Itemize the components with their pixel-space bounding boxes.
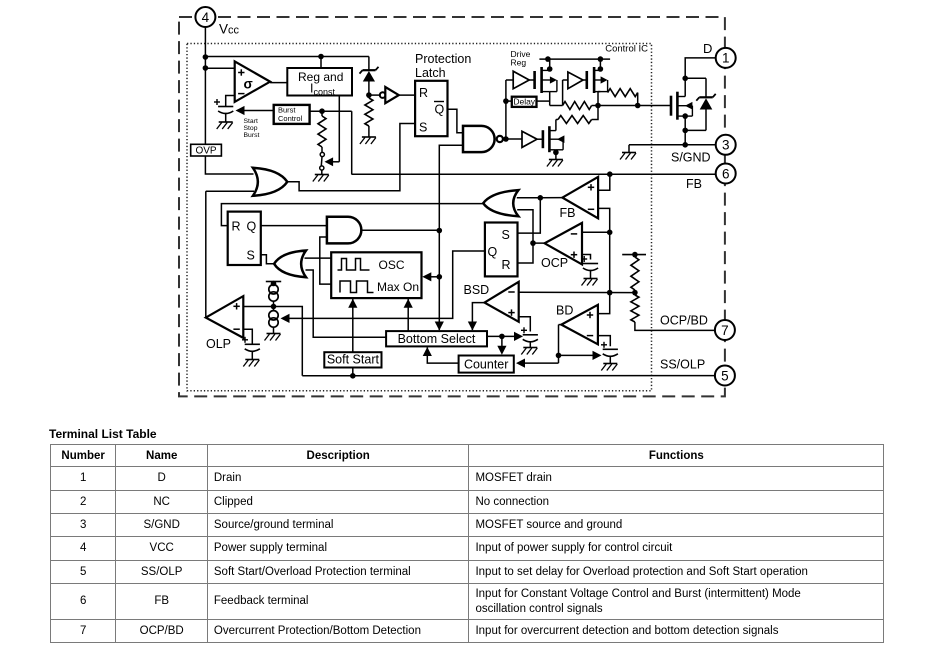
wire to buffer B1: [506, 79, 513, 81]
wire M4 drain to pin 1: [685, 58, 716, 97]
pin label FB: [686, 177, 702, 191]
label Drive Reg: [511, 49, 531, 68]
wire SoftStart to OSC: [348, 299, 357, 352]
node VCC junction 2: [203, 65, 209, 71]
resistor R6: [631, 257, 639, 290]
svg-text:Stop: Stop: [244, 125, 258, 132]
wire BD output: [559, 325, 562, 364]
ground M3: [547, 160, 563, 167]
IC package outline (dashed): [179, 17, 725, 396]
wire NAND output: [503, 138, 506, 140]
wire R5 to gate line: [592, 106, 598, 120]
wire CS node to SS/OLP line: [274, 307, 303, 376]
divider bias bar: [622, 254, 646, 256]
svg-text:5: 5: [721, 368, 729, 383]
pin 7 (OCP/BD): [715, 320, 735, 340]
block Counter: [459, 356, 514, 373]
comparator FB: [562, 177, 598, 218]
node rail M2: [598, 56, 604, 62]
node VCC junction 1: [203, 54, 209, 60]
resistor R1: [365, 95, 373, 137]
wire U6 Q to AND: [261, 225, 327, 227]
wire U9 node to U10 S: [518, 198, 541, 233]
wire S/GND to pin 3: [629, 144, 717, 146]
op-amp U1 (Reg comparator): [235, 61, 270, 102]
svg-text:FB: FB: [686, 177, 702, 191]
ground R1: [360, 137, 376, 144]
svg-text:3: 3: [722, 138, 730, 153]
wire Reg box to switch arrow: [325, 96, 340, 167]
node S/GND: [682, 142, 688, 148]
wire FB out to U9 input 1: [517, 197, 541, 199]
wire rail to Reg box: [320, 57, 322, 69]
pin label SS/OLP: [660, 358, 705, 372]
label OCP: [541, 256, 568, 270]
wire C3 ground stub: [529, 342, 531, 348]
resistor R5: [558, 116, 592, 124]
svg-text:cc: cc: [228, 25, 240, 37]
wire NAND input 2 vertical: [435, 145, 463, 330]
node rail-Reg junction: [318, 54, 324, 60]
svg-text:Q: Q: [435, 103, 445, 117]
switch SW1: [320, 152, 325, 170]
ground C2: [243, 360, 259, 367]
resistor R4: [608, 89, 638, 97]
wire U8 output to U6 S: [261, 255, 274, 264]
current source CS2: [269, 311, 278, 328]
OR gate U8: [274, 251, 306, 278]
svg-text:6: 6: [722, 166, 730, 181]
wire C1 to ground: [225, 114, 227, 123]
svg-text:BSD: BSD: [464, 283, 490, 297]
comparator OLP: [206, 296, 244, 338]
svg-text:Control: Control: [278, 114, 303, 123]
comparator BD: [561, 305, 598, 345]
pin 1 (D): [716, 48, 736, 68]
pin label OCP/BD: [660, 314, 708, 328]
node M4 drain: [682, 76, 688, 82]
flip-flop U6: [228, 212, 261, 265]
pin label D: [703, 41, 712, 56]
wire R4 to gate line: [637, 93, 639, 106]
node burst-resistor junction: [319, 108, 325, 114]
pin 4 (VCC): [195, 7, 215, 27]
pin label S/GND: [671, 151, 711, 165]
wire OCP out to U9 input 2: [517, 210, 533, 243]
flip-flop U3 (Protection Latch): [415, 81, 447, 136]
terminal list table: [50, 444, 884, 643]
wire U3 Q to NAND: [448, 109, 464, 133]
wire C5 ground stub: [609, 356, 611, 363]
wire U1 - input: [226, 96, 235, 107]
svg-text:S: S: [419, 121, 427, 135]
wire Delay output node: [537, 92, 550, 106]
block OSC: [331, 252, 421, 298]
wire OR2 output to U6 R: [221, 204, 483, 226]
svg-text:Start: Start: [244, 118, 258, 125]
wire M3 source down: [555, 150, 557, 160]
pin 6 (FB): [716, 164, 736, 184]
wire OSC to U8 input 1: [305, 257, 332, 259]
wire SS/OLP line to pin 5: [302, 375, 715, 377]
svg-text:Q: Q: [488, 245, 498, 259]
label Start Stop Burst: [244, 118, 260, 139]
svg-text:Reg and: Reg and: [298, 70, 343, 84]
current source CS1: [269, 285, 278, 302]
wire drive rail: [539, 58, 610, 60]
transistor M4 (power MOSFET): [671, 92, 692, 120]
resistor R2 (burst divider): [318, 111, 326, 147]
label OLP: [206, 337, 231, 351]
wire BottomSelect to BSD cap: [487, 332, 523, 341]
wire FB output: [540, 197, 562, 199]
block Bottom Select: [386, 331, 487, 346]
wire M1 drain to rail: [549, 59, 551, 70]
zener diode D1: [360, 57, 379, 96]
wire SoftStart stub: [352, 368, 354, 376]
wire AND output: [361, 229, 439, 231]
OR gate U9: [483, 190, 518, 216]
node rail M1: [545, 56, 551, 62]
Control IC label: [605, 44, 648, 55]
wire Burst Control output: [310, 110, 352, 112]
wire gate line to M4: [592, 105, 671, 107]
node OCP-R junction: [530, 240, 536, 246]
wire divider to pin 7: [635, 322, 716, 330]
svg-text:Control IC: Control IC: [605, 44, 648, 55]
svg-text:S: S: [247, 249, 255, 263]
wire VCC from pin 4: [204, 26, 206, 144]
node gate line junction 1: [595, 103, 601, 109]
label Protection Latch: [415, 52, 471, 80]
node divider tap: [632, 290, 638, 296]
VCC label: [219, 22, 240, 37]
block Soft Start: [324, 352, 381, 367]
svg-text:4: 4: [202, 10, 210, 25]
buffer B3: [506, 131, 537, 147]
svg-text:const: const: [314, 87, 336, 97]
svg-text:Protection: Protection: [415, 52, 471, 66]
svg-text:V: V: [219, 22, 228, 37]
node CS mid: [271, 304, 277, 310]
svg-text:OCP/BD: OCP/BD: [660, 314, 708, 328]
wire FB - input: [598, 208, 610, 292]
svg-text:R: R: [232, 220, 241, 234]
ground CS: [265, 334, 281, 341]
inverter U2: [369, 87, 399, 103]
wire OLP to OR1 input 2: [206, 190, 254, 192]
buffer B2: [563, 72, 583, 106]
svg-text:Latch: Latch: [415, 66, 446, 80]
wire BS to Counter: [497, 336, 506, 354]
wire BD + input: [598, 293, 610, 314]
svg-text:Burst: Burst: [244, 132, 260, 139]
capacitor C5: [601, 342, 618, 357]
node M2 drain: [598, 66, 604, 72]
wire comparator + input: [205, 67, 234, 69]
wire OCP + input: [582, 255, 591, 260]
wire Bottom Select to U8 input 2: [306, 270, 387, 337]
wire switch to ground: [321, 170, 323, 174]
wire NAND out vertical: [505, 80, 507, 139]
node OCP- junction: [607, 230, 613, 236]
node CS top: [271, 281, 277, 287]
wire M4 source bus: [684, 116, 686, 145]
wire VCC top rail: [205, 56, 369, 58]
NAND gate U4: [463, 126, 503, 152]
svg-text:OLP: OLP: [206, 337, 231, 351]
resistor R3: [563, 102, 592, 110]
svg-text:S/GND: S/GND: [671, 151, 711, 165]
ground SW1: [313, 175, 329, 182]
comparator OCP: [545, 223, 582, 265]
label BD: [556, 303, 573, 317]
ground C1: [217, 122, 233, 129]
svg-text:Soft Start: Soft Start: [327, 353, 380, 367]
svg-text:7: 7: [721, 323, 729, 338]
capacitor C3: [521, 327, 538, 342]
svg-text:Max On: Max On: [377, 280, 419, 294]
node D1 junction: [366, 92, 372, 98]
wire M3 drain up: [555, 120, 557, 131]
svg-text:Q: Q: [247, 220, 257, 234]
svg-text:Bottom Select: Bottom Select: [398, 332, 476, 346]
svg-text:Delay: Delay: [513, 97, 535, 107]
transistor M2: [587, 67, 608, 93]
wire OVP to OR1 input 1: [205, 156, 253, 174]
wire OCP out to U10 R: [518, 243, 545, 263]
wire gate drive line: [550, 105, 563, 107]
wire OLP + input: [243, 306, 273, 308]
ground C3: [521, 348, 537, 355]
wire BD out to C5 node: [559, 351, 602, 360]
svg-text:OVP: OVP: [195, 146, 216, 157]
wire Q to CS2 burst control: [281, 251, 485, 323]
avalanche diode D2: [685, 78, 716, 130]
label BSD: [464, 283, 490, 297]
wire FB + input: [598, 174, 610, 190]
node M4 source: [682, 113, 688, 119]
wire FB line to pin 6: [352, 173, 717, 175]
wire BSD - input: [519, 291, 635, 293]
block Reg and Iconst: [287, 68, 352, 97]
svg-text:R: R: [502, 258, 511, 272]
svg-text:OCP: OCP: [541, 256, 568, 270]
resistor R7: [631, 295, 639, 322]
svg-text:R: R: [419, 86, 428, 100]
wire AND input 2: [320, 237, 331, 284]
wire Delay input: [506, 100, 512, 102]
wire C4 ground stub: [590, 271, 592, 279]
label FB comparator: [560, 206, 576, 220]
svg-text:SS/OLP: SS/OLP: [660, 358, 705, 372]
node BS output junction: [499, 334, 505, 340]
node divider top: [632, 252, 638, 258]
wire CS2 to ground: [273, 327, 275, 333]
wire B3 to M3 gate: [537, 138, 543, 140]
AND gate U7: [327, 217, 361, 244]
wire M2 drain to rail: [599, 59, 601, 70]
wire R5 to M3 drain: [556, 119, 558, 121]
flip-flop U10: [485, 223, 518, 277]
node gate line junction 2: [635, 103, 641, 109]
wire Counter to BottomSelect: [423, 347, 459, 363]
node M3 source: [553, 150, 559, 156]
svg-text:Counter: Counter: [464, 357, 508, 371]
wire OLP output up: [205, 191, 207, 317]
buffer B1: [513, 71, 529, 89]
node MaxOn junction: [437, 274, 443, 280]
wire B2 to M2 gate: [583, 79, 587, 81]
wire M2 source: [598, 92, 600, 106]
wire S/GND ground stub: [628, 145, 630, 153]
Control IC boundary (dotted): [187, 44, 652, 391]
block Burst Control: [274, 105, 310, 124]
ground C4: [582, 279, 598, 286]
wire BSD output: [468, 303, 485, 331]
svg-text:S: S: [502, 228, 510, 242]
node diode bottom: [682, 128, 688, 134]
wire B1 to M1 gate: [529, 79, 534, 81]
node Delay junction: [503, 98, 509, 104]
node NAND output junction: [503, 136, 509, 142]
transistor M3: [543, 126, 565, 152]
capacitor C1: [214, 99, 233, 114]
svg-text:FB: FB: [560, 206, 576, 220]
wire OCP - input: [582, 231, 610, 233]
OVP box: [191, 144, 222, 156]
ground S/GND: [620, 153, 636, 160]
block Delay: [512, 97, 537, 107]
node net junction: [607, 290, 613, 296]
wire BD out to Counter: [516, 359, 559, 368]
pin 3 (S/GND): [716, 135, 736, 155]
wire BottomSelect to OSC: [404, 299, 413, 331]
svg-text:BD: BD: [556, 303, 573, 317]
capacitor C4: [581, 256, 598, 271]
wire FB net vertical: [351, 111, 353, 174]
node AND out junction: [437, 228, 443, 234]
wire R6R7 joint: [634, 255, 636, 295]
wire BSD + input: [519, 317, 531, 332]
node FB-OR junction: [538, 195, 544, 201]
svg-text:Reg: Reg: [511, 58, 527, 68]
wire MaxOn arrow: [422, 272, 439, 281]
wire burst control to C1 node: [236, 106, 274, 115]
node SoftStart junction: [350, 373, 356, 379]
wire C2 ground stub: [251, 351, 253, 359]
svg-text:D: D: [703, 41, 712, 56]
transistor M1: [535, 67, 557, 93]
wire R2 to switch: [321, 147, 323, 152]
wire OR1 output to Latch S: [287, 124, 415, 191]
ground C5: [601, 364, 617, 371]
node BD out junction: [556, 353, 562, 359]
OR gate U5: [253, 168, 287, 196]
capacitor C2: [242, 337, 260, 352]
wire U2 to Protection Latch R: [399, 94, 415, 96]
current source bias bar: [266, 282, 281, 285]
wire U1 output: [270, 82, 287, 84]
svg-text:1: 1: [722, 51, 730, 66]
wire CS mid: [273, 301, 275, 310]
node M1 drain: [547, 66, 553, 72]
svg-text:OSC: OSC: [379, 258, 405, 272]
wire OLP - input: [243, 329, 252, 344]
table title: [49, 427, 157, 441]
node FB branch: [607, 171, 613, 177]
wire BD - input: [598, 336, 610, 347]
comparator BSD: [485, 282, 519, 322]
pin 5 (SS/OLP): [715, 366, 735, 386]
svg-text:σ: σ: [244, 77, 253, 92]
